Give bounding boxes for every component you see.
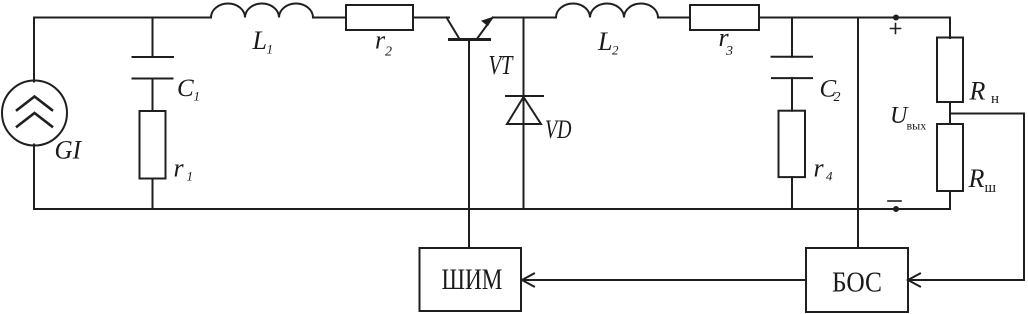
wire r1 to bottom rail (152, 179, 154, 210)
svg-text:3: 3 (725, 44, 733, 59)
wire r3 to right corner (759, 17, 950, 19)
transistor VT (447, 18, 493, 40)
wire C1 to r1 (152, 79, 154, 112)
svg-text:1: 1 (194, 89, 201, 104)
wire C2 branch top (791, 18, 793, 57)
svg-text:R: R (969, 77, 986, 106)
minus sign (888, 200, 901, 202)
resistor r4 (779, 111, 806, 177)
resistor Rsh (937, 124, 963, 191)
wire L1 to r2 (313, 17, 346, 19)
svg-text:r: r (814, 154, 825, 183)
wire bottom rail (34, 208, 950, 210)
wire L2 to r3 (658, 17, 690, 19)
source GI chevron lower (17, 113, 52, 127)
svg-text:вых: вых (907, 119, 927, 133)
wire top rail left segment (34, 17, 211, 19)
svg-text:C: C (177, 75, 194, 102)
inductor L1 (211, 4, 313, 18)
block BOS box (806, 248, 908, 312)
wire r4 to bottom rail (791, 177, 793, 209)
diode VD (506, 96, 543, 124)
wire top right corner down to Rn (949, 18, 951, 39)
wire VT base to PWM block (468, 40, 470, 249)
wire left vertical bottom (33, 145, 35, 210)
wire feedback BOS to PWM arrow (522, 274, 806, 287)
inductor L2 (556, 4, 658, 18)
wire left vertical top (33, 18, 35, 82)
svg-text:ШИМ: ШИМ (442, 263, 503, 296)
svg-text:R: R (968, 164, 985, 193)
source GI chevron upper (17, 97, 52, 111)
block PWM box (420, 248, 522, 311)
wire C1 branch top (152, 18, 154, 58)
capacitor C1 (133, 57, 174, 79)
svg-text:2: 2 (834, 90, 841, 105)
resistor Rn (937, 38, 963, 103)
svg-text:БОС: БОС (832, 268, 882, 299)
resistor r2 (346, 5, 413, 30)
source GI circle (2, 81, 67, 146)
node minus terminal dot (893, 206, 899, 212)
wire VT emitter to L2 (493, 17, 556, 19)
svg-text:VD: VD (545, 115, 572, 144)
svg-text:4: 4 (826, 169, 833, 184)
wire C2 to r4 (791, 78, 793, 111)
svg-text:VT: VT (489, 50, 515, 80)
wire r2 to VT (413, 17, 449, 19)
resistor r1 (140, 111, 166, 179)
wire feedback right vertical (1023, 114, 1025, 281)
capacitor C2 (772, 57, 813, 78)
resistor r3 (690, 5, 759, 30)
svg-text:1: 1 (267, 42, 274, 57)
wire junction to right feedback (950, 113, 1024, 115)
node plus terminal dot (893, 15, 899, 21)
svg-text:GI: GI (55, 136, 83, 165)
svg-text:r: r (174, 154, 185, 183)
wire Rsh to bottom rail (949, 191, 951, 209)
plus sign (891, 24, 901, 34)
svg-text:ш: ш (985, 180, 997, 196)
wire sense vertical to BOS block (857, 18, 859, 248)
svg-text:1: 1 (187, 169, 194, 184)
svg-text:2: 2 (612, 43, 619, 58)
svg-text:L: L (252, 26, 267, 55)
wire VD branch (523, 18, 525, 210)
wire Rn to Rsh (949, 102, 951, 124)
svg-text:н: н (991, 91, 999, 107)
svg-text:2: 2 (385, 45, 392, 60)
wire feedback right to BOS arrow (908, 274, 1024, 287)
svg-text:L: L (597, 27, 612, 56)
